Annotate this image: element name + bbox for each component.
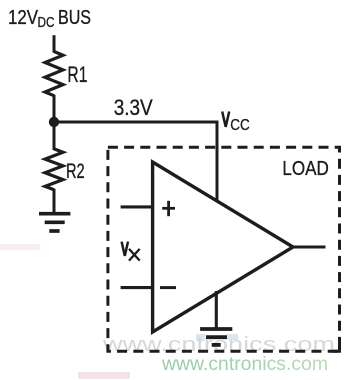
wire VCC feed down into op-amp xyxy=(216,121,219,203)
svg-text:12V: 12V xyxy=(8,7,38,29)
svg-text:3.3V: 3.3V xyxy=(114,95,153,120)
wire 12V bus to R1 xyxy=(53,35,56,52)
ground (below R2) xyxy=(39,214,70,231)
node junction of R1 R2 and 3.3V rail xyxy=(49,117,59,127)
svg-text:R2: R2 xyxy=(66,160,85,183)
label VX xyxy=(122,242,140,261)
load boundary box (dashed) xyxy=(108,147,340,351)
minus input marker xyxy=(160,286,176,289)
wire R1 to R2 through junction xyxy=(53,95,56,150)
wire output xyxy=(292,245,326,248)
plus input marker xyxy=(162,201,175,216)
op-amp xyxy=(153,162,293,332)
ground (op-amp) xyxy=(200,329,232,345)
svg-text:www.cntronics.com: www.cntronics.com xyxy=(161,353,328,375)
wire op-amp ground lead xyxy=(215,291,218,329)
load box bottom-right corner dash xyxy=(333,346,340,351)
wire 3.3V rail horizontal xyxy=(54,121,219,124)
watermark artifacts xyxy=(0,244,238,379)
resistor R2 xyxy=(45,149,63,190)
label VCC xyxy=(222,112,250,134)
resistor R1 xyxy=(45,52,63,96)
svg-text:R1: R1 xyxy=(67,62,87,87)
svg-text:LOAD: LOAD xyxy=(282,157,329,180)
svg-text:DC: DC xyxy=(38,14,55,31)
svg-text:BUS: BUS xyxy=(58,7,91,29)
svg-text:CC: CC xyxy=(230,117,250,134)
label 12VDC BUS xyxy=(8,7,91,31)
wire noninverting input xyxy=(121,205,153,208)
wire inverting input xyxy=(121,286,153,289)
wire R2 to ground xyxy=(53,189,56,214)
